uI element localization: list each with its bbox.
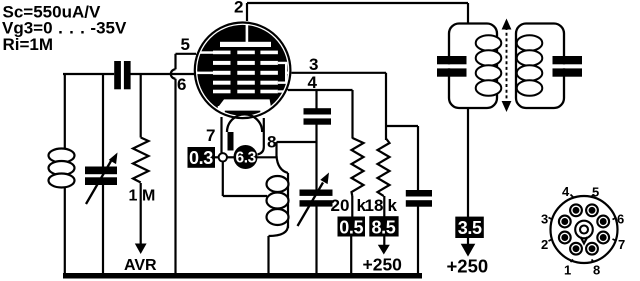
node junction circle	[219, 153, 227, 161]
tube U1 cathode bar	[216, 99, 272, 110]
wire osc tank vertical mid	[315, 142, 317, 190]
svg-text:3: 3	[541, 212, 548, 227]
resistor 18k	[378, 139, 390, 197]
socket pin 6	[597, 216, 609, 228]
wire grid input horizontal y74	[63, 73, 114, 75]
label 0.3 box	[188, 147, 216, 168]
wire pin4 vertical to 20k	[351, 90, 353, 139]
capacitor pin4 bypass	[304, 108, 332, 125]
svg-text:M: M	[142, 188, 155, 205]
tube U1 grid row4 dashes	[213, 81, 231, 85]
wire top horizontal to transformer	[247, 2, 468, 4]
svg-text:k: k	[388, 196, 398, 215]
svg-text:18: 18	[365, 196, 384, 215]
wire antenna branch vertical	[64, 74, 66, 150]
wire tuning-cap branch vertical	[102, 74, 104, 168]
capacitor variable oscillator tuning	[298, 173, 333, 227]
socket pin 7	[597, 232, 609, 244]
tube U1 envelope internals	[194, 21, 292, 151]
transformer IF secondary windings	[517, 35, 543, 96]
capacitor variable antenna tuning	[85, 153, 118, 205]
svg-text:3: 3	[309, 55, 318, 74]
resistor 20k	[352, 138, 364, 196]
svg-text:2: 2	[234, 0, 243, 17]
svg-text:8.5: 8.5	[372, 217, 396, 237]
socket pin 3	[559, 216, 571, 228]
tube U1 grid row1 dashes	[213, 51, 231, 55]
wire transformer primary top	[467, 3, 469, 24]
wire 1M branch vertical	[140, 74, 142, 138]
socket diagram circle	[551, 196, 618, 263]
wire node to 0.3 label stub	[215, 156, 219, 158]
wire cathode tap vertical	[222, 161, 224, 196]
tube U1 grid row3 dashes	[213, 71, 231, 75]
socket pin 4	[570, 204, 582, 216]
svg-text:7: 7	[206, 126, 215, 145]
socket center spigot	[575, 221, 593, 239]
socket pin 8	[586, 243, 598, 255]
wire screen bypass branch horizontal	[386, 125, 418, 127]
wire screen bypass vertical	[417, 126, 419, 190]
socket pin 2	[559, 232, 571, 244]
svg-text:1: 1	[129, 188, 138, 205]
capacitor grid coupling (top left)	[114, 61, 130, 89]
svg-text:8: 8	[267, 133, 276, 152]
wire pin3 horizontal	[289, 72, 386, 74]
tube U1 envelope circle	[195, 23, 291, 119]
wire pin8 into osc coil top	[277, 156, 289, 173]
capacitor IF secondary trimmer	[561, 64, 568, 68]
wire 20k bottom through 0.5 to bus	[351, 196, 353, 217]
socket pin 5	[586, 204, 598, 216]
svg-text:5: 5	[592, 185, 599, 200]
socket label ticks	[549, 195, 617, 263]
capacitor IF primary trimmer	[446, 64, 453, 68]
label 6.3 heater disc	[234, 145, 258, 169]
transformer IF secondary can	[516, 24, 564, 109]
svg-text:6: 6	[177, 75, 186, 94]
wire heater disc to pin8 node	[256, 156, 277, 158]
label 3.5 box	[455, 217, 484, 238]
svg-text:4: 4	[562, 184, 570, 199]
label 8.5 box	[369, 216, 398, 236]
wire node to heater disc stub	[227, 156, 234, 158]
svg-text:20: 20	[331, 196, 350, 215]
svg-text:4: 4	[308, 73, 318, 92]
transformer IF primary can	[449, 24, 497, 109]
inductor oscillator coil	[267, 173, 289, 275]
node tuning double arrow	[502, 19, 512, 113]
tube U1 screen bracket white	[278, 63, 292, 92]
transformer IF primary windings	[476, 35, 502, 96]
resistor 1M	[133, 138, 149, 183]
wire pin5 ground branch horizontal	[176, 53, 199, 55]
svg-text:3.5: 3.5	[458, 218, 482, 238]
tube U1 pin6 lead white	[194, 72, 213, 75]
wire heater right leg	[258, 117, 264, 155]
tube U1 anode bar	[220, 42, 271, 47]
tube U1 anode lead up	[246, 21, 249, 42]
svg-text:AVR: AVR	[124, 257, 157, 274]
svg-text:+250: +250	[447, 256, 489, 277]
node +250 arrow (transformer feed)	[461, 244, 476, 257]
svg-text:0.5: 0.5	[339, 217, 363, 237]
socket pin 1	[559, 204, 609, 254]
wire pin3 vertical to 18k	[385, 73, 387, 140]
inductor antenna coil	[49, 149, 75, 188]
wire pin4 horizontal	[286, 89, 353, 91]
svg-text:7: 7	[618, 237, 625, 252]
svg-text:6: 6	[617, 212, 624, 227]
ground bus bottom	[63, 273, 422, 279]
wire anode pin2 up	[246, 3, 248, 22]
label 0.5 box	[338, 217, 366, 237]
svg-text:+250: +250	[363, 255, 403, 275]
wire 18k bottom to 8.5 label	[383, 196, 385, 217]
wire transformer primary bottom feed	[467, 108, 469, 219]
wire pin8 node vertical	[275, 142, 277, 158]
wire pin5 ground branch vertical with hop	[174, 54, 176, 70]
svg-text:8: 8	[593, 263, 600, 278]
tube U1 cathode left channel	[218, 106, 225, 117]
tube U1 heater left thick leg	[228, 132, 234, 151]
svg-text:6.3: 6.3	[236, 150, 257, 167]
wire 1M bottom to AVR arrow	[140, 183, 142, 245]
node +250 arrow (18k feed)	[378, 245, 390, 255]
wire 8.5 label to +250 arrow	[383, 236, 385, 246]
svg-text:1: 1	[564, 263, 571, 278]
svg-text:5: 5	[181, 35, 190, 54]
tube U1 pin5 lead white	[196, 51, 213, 54]
svg-text:Ri=1M: Ri=1M	[3, 35, 54, 54]
wire pin4 bypass cap branch	[315, 90, 317, 109]
tube U1 heater dome	[227, 114, 262, 132]
svg-text:2: 2	[541, 237, 548, 252]
tube U1 grid row5 dashes	[213, 90, 231, 94]
tube U1 cathode right channel	[260, 105, 267, 118]
capacitor screen bypass	[406, 190, 432, 207]
tube U1 black interior disc	[197, 25, 288, 116]
svg-text:0.3: 0.3	[189, 148, 213, 168]
wire cathode pin7 lead	[220, 114, 222, 153]
tube U1 grid row2 dashes	[213, 61, 231, 65]
wire cathode tap horizontal to coil tap	[223, 195, 267, 197]
wire osc tank vertical to bus	[315, 206, 317, 275]
node AVR arrow	[135, 244, 147, 255]
wire pin8 node horizontal to tank	[277, 141, 317, 143]
